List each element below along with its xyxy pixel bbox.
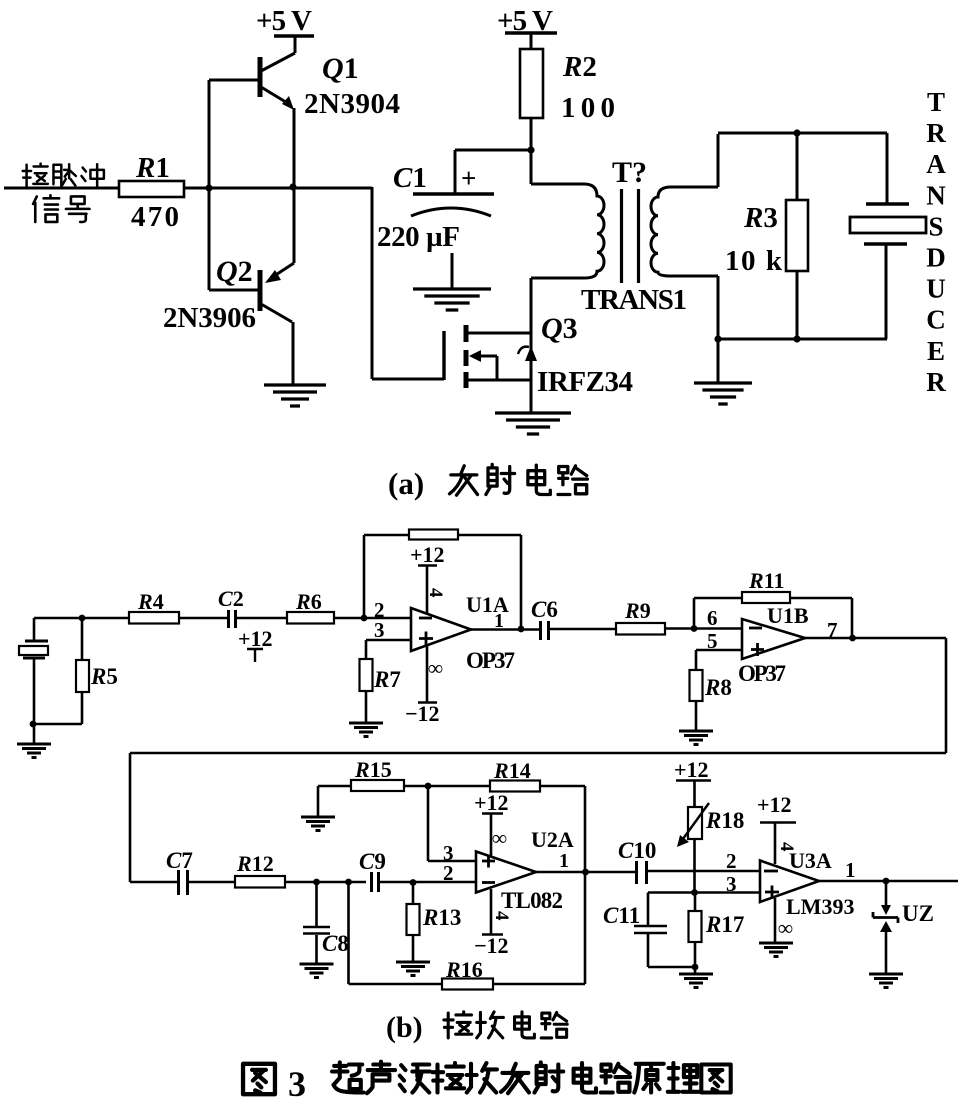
wire feedback U1A: [364, 535, 521, 629]
wire output to gate: [372, 187, 444, 379]
resistor R18 variable: [688, 807, 702, 839]
svg-text:R5: R5: [90, 664, 118, 689]
svg-text:R16: R16: [445, 957, 483, 982]
ground C1: [413, 289, 491, 310]
svg-text:A: A: [926, 149, 946, 179]
power -12 U2A pin4: [482, 889, 503, 935]
capacitor C6: [541, 621, 549, 640]
svg-text:+12: +12: [410, 542, 445, 567]
wire bases vertical: [208, 80, 211, 290]
transformer T? TRANS1 primary winding: [531, 184, 604, 278]
svg-text:2: 2: [443, 861, 454, 885]
power +5V Q1: [274, 34, 314, 37]
resistor R14: [490, 781, 540, 792]
op-amp U3A comparator: [760, 861, 819, 903]
svg-text:C9: C9: [359, 849, 386, 874]
svg-text:R7: R7: [373, 667, 401, 692]
resistor R8: [690, 670, 703, 701]
op-amp U2A: [476, 852, 536, 893]
wire bottom rail: [718, 338, 887, 341]
svg-text:TRANS1: TRANS1: [581, 284, 687, 316]
svg-text:2N3904: 2N3904: [304, 88, 400, 120]
resistor R2: [520, 49, 543, 118]
svg-text:IRFZ34: IRFZ34: [537, 366, 633, 398]
svg-text:R8: R8: [704, 675, 732, 700]
wire U2A output: [536, 871, 636, 874]
capacitor C9: [372, 872, 379, 892]
wire input: [4, 187, 119, 190]
svg-text:T?: T?: [612, 156, 647, 189]
svg-text:U3A: U3A: [789, 848, 832, 873]
wire U1A plus input: [366, 640, 411, 659]
svg-text:Q1: Q1: [322, 52, 359, 85]
wire R2 to transformer: [530, 118, 533, 184]
ground UZ: [869, 974, 903, 988]
svg-text:C11: C11: [603, 903, 640, 928]
node U1A output dot: [518, 626, 525, 633]
wire C6 to R9: [549, 628, 616, 631]
resistor R17: [694, 893, 697, 974]
svg-text:1: 1: [845, 858, 856, 882]
svg-text:∞: ∞: [428, 656, 443, 680]
svg-text:U1B: U1B: [767, 603, 809, 628]
resistor R15: [318, 785, 351, 788]
svg-text:R15: R15: [354, 757, 392, 782]
node U3A plus junction dot: [691, 889, 698, 896]
resistor U1A feedback: [409, 530, 458, 540]
wire U2A plus branch: [428, 786, 476, 861]
svg-text:10 k: 10 k: [725, 245, 783, 277]
svg-text:U2A: U2A: [531, 827, 574, 852]
svg-text:R11: R11: [748, 568, 784, 593]
svg-text:(b): (b): [386, 1011, 423, 1044]
ground U3A: [759, 943, 793, 957]
node R16 branch dot: [345, 879, 352, 886]
svg-text:R3: R3: [743, 202, 778, 234]
svg-text:4: 4: [491, 911, 512, 921]
wire drain-source vertical: [530, 278, 533, 412]
wire U1A output: [471, 628, 541, 631]
svg-text:S: S: [928, 211, 943, 241]
ground R17: [679, 974, 713, 988]
ground R15: [317, 786, 320, 817]
resistor R13: [412, 882, 415, 962]
svg-text:R1: R1: [135, 152, 170, 184]
svg-text:3: 3: [374, 618, 385, 642]
node C below R2 dot: [527, 146, 534, 153]
resistor R7: [360, 659, 373, 691]
svg-text:N: N: [926, 180, 946, 210]
transistor Q1: [209, 79, 258, 82]
svg-text:R9: R9: [624, 598, 651, 623]
svg-text:3: 3: [288, 1064, 306, 1104]
svg-text:E: E: [927, 336, 945, 366]
transistor Q3 MOSFET: [442, 331, 445, 380]
svg-text:C10: C10: [618, 838, 656, 863]
svg-text:R12: R12: [236, 851, 274, 876]
resistor R12: [235, 876, 285, 888]
svg-text:+5 V: +5 V: [256, 5, 312, 37]
ground sensor: [33, 724, 36, 744]
resistor R3: [796, 133, 799, 339]
svg-text:6: 6: [707, 606, 718, 630]
wire U3A plus input: [648, 891, 760, 894]
wire C1 to R2 node: [455, 149, 531, 152]
svg-text:R2: R2: [562, 51, 597, 83]
wire U1B output wrap: [130, 638, 946, 882]
power -12 U1A pin8: [418, 645, 437, 703]
op-amp U1B: [742, 619, 805, 659]
wire feedback U1B: [694, 598, 852, 638]
ground transformer: [717, 339, 720, 383]
svg-text:−12: −12: [405, 701, 440, 726]
ground R7: [349, 723, 383, 737]
node U2A output dot: [582, 869, 589, 876]
ground Q3: [495, 413, 571, 434]
wire R14 to right vertical: [540, 785, 585, 788]
wire R1 to node: [184, 187, 372, 190]
capacitor C8: [303, 882, 330, 964]
svg-text:220 µF: 220 µF: [377, 221, 460, 253]
resistor R4: [129, 612, 179, 624]
resistor R5: [81, 618, 84, 724]
node 接脉冲信号 input label: [23, 164, 48, 188]
node R15/R14 junction dot: [425, 783, 432, 790]
ground R13: [396, 962, 430, 976]
wire sensor bottom: [34, 723, 82, 726]
node E secondary bottom dot: [793, 335, 800, 342]
node B Q1/Q2 output dot: [289, 183, 296, 190]
wire secondary to rails: [717, 134, 720, 339]
resistor R1: [119, 181, 184, 197]
capacitor C2: [229, 610, 236, 628]
resistor R11: [742, 592, 790, 603]
node U1B inverting input dot: [691, 625, 698, 632]
node R13 top dot: [410, 879, 417, 886]
node U1B output dot: [849, 635, 856, 642]
svg-text:4: 4: [425, 588, 446, 598]
svg-text:R6: R6: [295, 589, 322, 614]
op-amp U1A: [411, 608, 471, 651]
capacitor C10: [637, 861, 647, 884]
resistor R9: [616, 623, 665, 635]
power +5V R2: [505, 31, 557, 34]
svg-text:3: 3: [726, 872, 737, 896]
wire R18 bottom: [693, 839, 696, 893]
svg-text:+: +: [461, 163, 476, 193]
wire top rail: [718, 132, 887, 135]
wire sensor row: [34, 617, 228, 620]
svg-text:R18: R18: [705, 808, 744, 833]
wire U1B plus input: [696, 650, 742, 670]
svg-text:R: R: [926, 118, 946, 148]
svg-text:Q3: Q3: [541, 312, 578, 345]
wire C2 to U1A: [236, 617, 411, 620]
svg-text:∞: ∞: [778, 916, 793, 940]
node R17 bottom dot: [692, 964, 699, 971]
svg-text:R17: R17: [705, 912, 744, 937]
svg-text:LM393: LM393: [786, 894, 854, 919]
resistor R6: [287, 612, 334, 624]
ground Q2: [264, 385, 326, 406]
wire row2 main: [130, 881, 476, 884]
transducer piezo element: [886, 133, 889, 204]
svg-text:+12: +12: [474, 790, 509, 815]
ground R8: [679, 731, 713, 745]
svg-text:R13: R13: [422, 905, 461, 930]
svg-text:Q2: Q2: [216, 255, 253, 288]
capacitor C7: [179, 870, 188, 895]
transformer core: [622, 189, 639, 283]
diode UZ zener: [885, 881, 888, 907]
svg-text:C2: C2: [218, 586, 244, 611]
svg-text:(a): (a): [388, 466, 424, 501]
svg-text:C8: C8: [322, 931, 349, 956]
svg-text:C: C: [926, 305, 946, 335]
svg-text:D: D: [926, 243, 946, 273]
wire C10 to U3A pin2: [647, 870, 760, 873]
node D secondary top dot: [793, 129, 800, 136]
svg-text:C7: C7: [166, 848, 193, 873]
svg-text:R: R: [926, 367, 946, 397]
svg-text:1: 1: [559, 850, 569, 872]
svg-text:R14: R14: [493, 758, 531, 783]
svg-text:+5 V: +5 V: [497, 5, 553, 37]
node C8 top dot: [313, 879, 320, 886]
transducer RX sensor: [33, 618, 36, 641]
svg-text:OP37: OP37: [466, 648, 515, 673]
svg-text:C1: C1: [393, 162, 427, 194]
wire R15 to R14 node: [404, 785, 490, 788]
svg-text:∞: ∞: [492, 826, 507, 850]
svg-text:100: 100: [561, 92, 615, 124]
wire U3A output: [819, 880, 958, 883]
svg-text:T: T: [927, 87, 945, 117]
ground C8: [300, 964, 334, 978]
svg-text:C6: C6: [531, 597, 558, 622]
transformer secondary winding: [651, 187, 718, 276]
wire R9 to U1B: [665, 627, 742, 630]
caption 图3 title: [243, 1064, 275, 1094]
capacitor C1: [454, 150, 457, 194]
node R5 top dot: [79, 615, 86, 622]
node output dot: [883, 878, 890, 885]
svg-text:+12: +12: [674, 757, 709, 782]
svg-text:OP37: OP37: [738, 661, 786, 686]
svg-text:TL082: TL082: [501, 888, 563, 913]
node A junction R1/Q1-base dot: [205, 184, 212, 191]
svg-text:−12: −12: [474, 933, 509, 958]
resistor R16 feedback: [349, 786, 586, 984]
svg-text:R4: R4: [137, 589, 164, 614]
svg-text:4: 4: [776, 842, 797, 852]
svg-text:2: 2: [726, 849, 737, 873]
svg-text:2N3906: 2N3906: [163, 302, 256, 334]
capacitor C11: [634, 893, 695, 968]
svg-text:UZ: UZ: [902, 901, 934, 926]
transistor Q2: [209, 289, 258, 292]
power ground U3A pin8: [774, 898, 777, 943]
svg-text:+12: +12: [757, 792, 792, 817]
svg-text:U: U: [926, 274, 946, 304]
node U1A inverting input dot: [361, 615, 368, 622]
svg-text:+12: +12: [238, 626, 273, 651]
svg-text:470: 470: [131, 201, 179, 233]
